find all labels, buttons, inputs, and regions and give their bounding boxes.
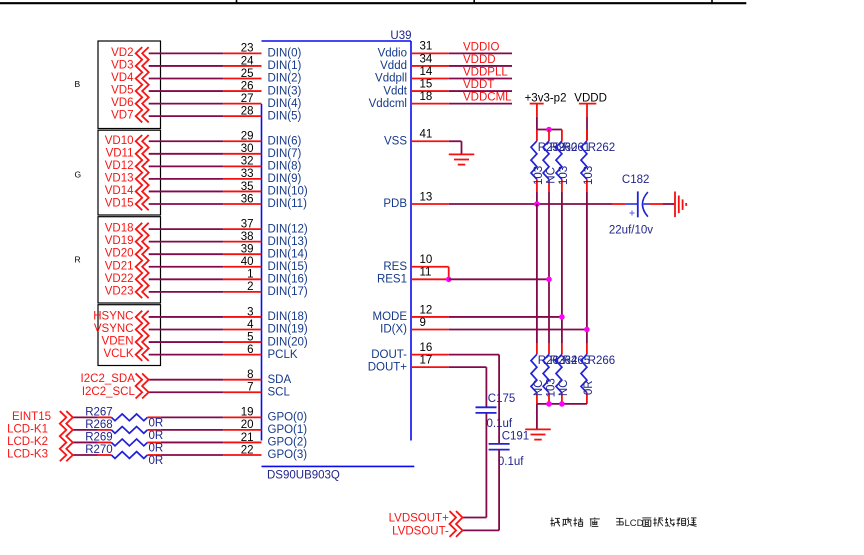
svg-text:10: 10 [420, 254, 433, 266]
svg-text:0R: 0R [149, 442, 164, 454]
wire VSS [449, 140, 462, 142]
group box B (VD2-VD7) [98, 41, 161, 129]
svg-text:R270: R270 [85, 444, 113, 456]
pin 5 DIN(20) [223, 331, 308, 348]
wire VDDIO [449, 52, 512, 54]
svg-text:11: 11 [420, 267, 432, 279]
wire DOUT+ [449, 366, 487, 368]
wire HSYNC [149, 316, 224, 318]
svg-text:0R: 0R [149, 455, 164, 467]
svg-text:VD3: VD3 [111, 59, 133, 71]
svg-text:DIN(7): DIN(7) [268, 148, 302, 160]
svg-text:LVDSOUT+: LVDSOUT+ [389, 513, 449, 525]
wire VCLK [149, 354, 224, 356]
svg-text:DIN(5): DIN(5) [268, 110, 302, 122]
svg-text:VD21: VD21 [105, 260, 134, 272]
svg-text:33: 33 [241, 168, 254, 180]
svg-text:G: G [75, 169, 82, 179]
ground VSS [449, 154, 475, 164]
wire resistor bottom bus [537, 403, 587, 405]
svg-text:I2C2_SDA: I2C2_SDA [81, 373, 136, 385]
svg-text:103: 103 [533, 166, 545, 185]
svg-text:14: 14 [420, 66, 433, 78]
wire R262 down [586, 192, 588, 343]
svg-text:LCD-K1: LCD-K1 [7, 423, 48, 435]
svg-text:VDDPLL: VDDPLL [463, 67, 508, 79]
svg-text:R262: R262 [588, 142, 616, 154]
svg-text:16: 16 [420, 342, 433, 354]
svg-text:PDB: PDB [383, 198, 407, 210]
svg-text:Vddd: Vddd [380, 60, 407, 72]
svg-text:3: 3 [247, 306, 253, 318]
port arrows [136, 223, 149, 298]
wire R261 down [561, 192, 563, 343]
svg-text:PCLK: PCLK [268, 349, 298, 361]
svg-text:C191: C191 [502, 431, 530, 443]
pin 4 DIN(19) [223, 319, 308, 336]
svg-text:VD6: VD6 [111, 97, 133, 109]
svg-text:VDDT: VDDT [463, 79, 494, 91]
wire VD7 [149, 115, 224, 117]
wire VD14 [149, 190, 224, 192]
svg-text:VD10: VD10 [105, 135, 134, 147]
svg-text:R267: R267 [85, 406, 113, 418]
svg-text:VDEN: VDEN [102, 336, 134, 348]
IC U39 outline [262, 30, 412, 440]
node junction R262/ID(X) [584, 327, 590, 333]
port arrows LVDSOUT [450, 511, 463, 537]
node junction RES/RES1 [446, 277, 452, 283]
svg-text:7: 7 [247, 382, 253, 394]
pin 25 DIN(2) [223, 68, 301, 85]
svg-text:VD5: VD5 [111, 85, 133, 97]
pin 14 Vddpll [375, 66, 449, 85]
pin 3 DIN(18) [223, 306, 308, 323]
wire DOUT- [449, 354, 499, 356]
svg-text:SCL: SCL [268, 386, 291, 398]
resistor R270 0R [85, 444, 163, 467]
wire VD18 [149, 228, 224, 230]
pin 19 GPO(0) [223, 407, 307, 424]
svg-text:VCLK: VCLK [103, 348, 133, 360]
resistor R269 0R [85, 431, 163, 454]
wire bus to ground [536, 404, 538, 430]
svg-text:RES: RES [383, 261, 407, 273]
port arrows [136, 311, 149, 361]
wire LCD-K3 to R270 [73, 454, 98, 456]
svg-text:GPO(1): GPO(1) [268, 424, 308, 436]
svg-text:DOUT-: DOUT- [371, 349, 407, 361]
svg-text:ID(X): ID(X) [380, 324, 407, 336]
pin 6 PCLK [223, 344, 298, 361]
pin 36 DIN(11) [223, 193, 307, 210]
wire VD19 [149, 241, 224, 243]
wire VD22 [149, 278, 224, 280]
svg-text:Vddcml: Vddcml [369, 98, 407, 110]
svg-text:2: 2 [247, 281, 253, 293]
svg-text:LCD: LCD [625, 518, 644, 529]
svg-text:MODE: MODE [373, 311, 408, 323]
capacitor C175 0.1uf [476, 393, 516, 430]
svg-text:12: 12 [420, 304, 433, 316]
svg-text:28: 28 [241, 105, 254, 117]
svg-text:34: 34 [420, 53, 433, 65]
svg-text:40: 40 [241, 256, 254, 268]
wire R268 to pin [161, 429, 224, 431]
resistor R264 103 [543, 343, 578, 404]
svg-text:38: 38 [241, 231, 254, 243]
svg-text:103: 103 [545, 378, 557, 397]
svg-text:VD18: VD18 [105, 223, 134, 235]
pin 22 GPO(3) [223, 444, 307, 461]
pin 7 SCL [223, 382, 290, 399]
wire VD10 [149, 140, 224, 142]
pin 12 MODE [373, 304, 449, 323]
port arrows [136, 135, 149, 210]
wire VD21 [149, 266, 224, 268]
wire VDDPLL [449, 78, 512, 80]
node junction bus/R264 [546, 401, 552, 407]
svg-text:DIN(8): DIN(8) [268, 161, 302, 173]
svg-text:VSYNC: VSYNC [94, 323, 134, 335]
svg-text:+3v3-p2: +3v3-p2 [525, 92, 567, 104]
svg-text:22: 22 [241, 444, 254, 456]
wire RES1 [449, 278, 549, 280]
svg-text:R266: R266 [588, 355, 616, 367]
svg-text:VDDCML: VDDCML [463, 92, 512, 104]
svg-text:DOUT+: DOUT+ [368, 361, 408, 373]
port arrows I2C2 [136, 373, 149, 398]
node junction R260/RES1 [546, 277, 552, 283]
resistor R260 NC [543, 130, 577, 192]
pin 18 Vddcml [369, 91, 449, 110]
pin 31 Vddio [378, 41, 449, 60]
group box G (VD10-VD15) [98, 130, 161, 215]
svg-text:U39: U39 [390, 30, 411, 42]
wire LCD-K1 to R268 [73, 429, 98, 431]
svg-text:103: 103 [558, 166, 570, 185]
pin 34 Vddd [380, 53, 449, 72]
resistor R262 103 [581, 130, 615, 192]
svg-text:9: 9 [420, 317, 426, 329]
wire RES to RES1 [448, 267, 450, 280]
pin 17 DOUT+ [368, 354, 449, 373]
svg-text:DIN(0): DIN(0) [268, 48, 302, 60]
wire VDEN [149, 341, 224, 343]
resistor R266 0R [581, 343, 615, 404]
svg-text:GPO(0): GPO(0) [268, 412, 308, 424]
wire R260 down [548, 192, 550, 343]
wire R259 to PDB [536, 192, 538, 204]
power +3v3-p2 [525, 92, 567, 116]
wire VD5 [149, 90, 224, 92]
svg-text:DIN(2): DIN(2) [268, 73, 302, 85]
svg-text:35: 35 [241, 181, 254, 193]
pin 38 DIN(13) [223, 231, 308, 248]
wire VDDD [449, 65, 512, 67]
svg-text:Vddpll: Vddpll [375, 73, 407, 85]
svg-text:39: 39 [241, 244, 254, 256]
svg-text:37: 37 [241, 218, 254, 230]
svg-text:DIN(15): DIN(15) [268, 261, 308, 273]
svg-text:VD11: VD11 [106, 147, 134, 159]
svg-text:VDDIO: VDDIO [463, 42, 499, 54]
svg-text:DIN(1): DIN(1) [268, 60, 302, 72]
svg-text:B: B [75, 79, 81, 89]
svg-text:22uf/10v: 22uf/10v [609, 224, 653, 236]
svg-text:NC: NC [545, 167, 557, 184]
svg-text:VD12: VD12 [105, 160, 134, 172]
wire R267 to pin [161, 416, 224, 418]
svg-text:DIN(3): DIN(3) [268, 85, 302, 97]
svg-text:EINT15: EINT15 [12, 411, 51, 423]
svg-text:DIN(4): DIN(4) [268, 98, 302, 110]
svg-text:20: 20 [241, 419, 254, 431]
pin 21 GPO(2) [223, 432, 307, 449]
svg-text:VSS: VSS [384, 135, 407, 147]
pin 27 DIN(4) [223, 93, 301, 110]
pin 35 DIN(10) [223, 181, 308, 198]
svg-text:SDA: SDA [268, 374, 292, 386]
svg-text:29: 29 [241, 131, 254, 143]
svg-text:DIN(13): DIN(13) [268, 236, 308, 248]
wire R269 to pin [161, 441, 224, 443]
port arrows EINT/LCD-K [60, 411, 73, 461]
pin 8 SDA [223, 369, 291, 386]
svg-text:DIN(16): DIN(16) [268, 274, 308, 286]
node junction bus/R265 [559, 401, 565, 407]
wire VD20 [149, 253, 224, 255]
wire I2C2_SDA [149, 379, 224, 381]
svg-text:LCD-K3: LCD-K3 [7, 449, 48, 461]
svg-text:Vddio: Vddio [378, 48, 407, 60]
pin 23 DIN(0) [223, 43, 301, 60]
wire VD12 [149, 165, 224, 167]
resistor R259 103 [531, 130, 565, 192]
ground (rotated) at C182 [675, 192, 686, 218]
svg-text:VD20: VD20 [105, 248, 134, 260]
svg-text:VD14: VD14 [105, 185, 134, 197]
svg-text:DIN(6): DIN(6) [268, 135, 302, 147]
svg-text:C182: C182 [622, 174, 650, 186]
svg-text:21: 21 [241, 432, 254, 444]
svg-text:LVDSOUT-: LVDSOUT- [392, 525, 449, 537]
svg-text:GPO(2): GPO(2) [268, 437, 308, 449]
svg-text:0R: 0R [583, 380, 595, 395]
wire VDDT [449, 90, 512, 92]
IC U39 part number DS90UB903Q [262, 466, 415, 481]
svg-text:VDDD: VDDD [463, 54, 496, 66]
wire VD4 [149, 78, 224, 80]
wire VDDD stem [586, 117, 588, 140]
svg-text:VD22: VD22 [105, 273, 134, 285]
pin 37 DIN(12) [223, 218, 308, 235]
svg-text:DIN(20): DIN(20) [268, 336, 308, 348]
pin 26 DIN(3) [223, 80, 301, 97]
resistor R268 0R [85, 419, 163, 442]
pin 10 RES [383, 254, 448, 273]
wire VD23 [149, 291, 224, 293]
svg-text:32: 32 [241, 156, 254, 168]
wire PDB [449, 203, 612, 205]
svg-text:VD4: VD4 [111, 72, 134, 84]
svg-text:DS90UB903Q: DS90UB903Q [267, 469, 340, 481]
wire VD6 [149, 103, 224, 105]
pin 1 DIN(16) [223, 269, 308, 286]
capacitor C182 22uf/10v [609, 174, 653, 236]
svg-text:VD19: VD19 [105, 235, 134, 247]
svg-text:VD15: VD15 [105, 198, 134, 210]
svg-text:VD2: VD2 [111, 47, 133, 59]
power VDDD [574, 92, 607, 117]
svg-text:0.1uf: 0.1uf [487, 418, 513, 430]
wire VSYNC [149, 329, 224, 331]
svg-text:103: 103 [583, 166, 595, 185]
resistor R263 NC [531, 343, 565, 404]
wire C191 to LVDSOUT- [498, 450, 500, 531]
svg-text:13: 13 [420, 191, 433, 203]
svg-text:0.1uf: 0.1uf [498, 456, 524, 468]
capacitor C191 0.1uf [489, 431, 530, 468]
svg-text:R: R [75, 255, 81, 265]
svg-text:VD7: VD7 [111, 110, 133, 122]
svg-text:18: 18 [420, 91, 433, 103]
wire MODE [449, 316, 562, 318]
wire I2C2_SCL [149, 391, 224, 393]
svg-text:R269: R269 [85, 431, 113, 443]
svg-text:DIN(18): DIN(18) [268, 311, 308, 323]
node junction bridge/R260 [546, 127, 552, 133]
wire LCD-K2 to R269 [73, 441, 98, 443]
svg-text:VD23: VD23 [105, 285, 134, 297]
svg-text:HSYNC: HSYNC [93, 310, 133, 322]
wire VDDCML [449, 103, 512, 105]
pin 28 DIN(5) [223, 105, 301, 122]
svg-text:6: 6 [247, 344, 253, 356]
group box R (VD18-VD23) [98, 217, 161, 303]
wire VD13 [149, 178, 224, 180]
svg-text:26: 26 [241, 80, 254, 92]
ground bottom bank [525, 429, 551, 439]
wire EINT15 to R267 [73, 416, 98, 418]
node junction R261/MODE [559, 314, 565, 320]
port arrows [136, 47, 149, 122]
svg-text:DIN(11): DIN(11) [268, 198, 308, 210]
pin 16 DOUT- [371, 342, 448, 361]
pin 33 DIN(9) [223, 168, 301, 185]
pin 39 DIN(14) [223, 244, 308, 261]
wire VD3 [149, 65, 224, 67]
svg-text:0R: 0R [149, 430, 164, 442]
pin 24 DIN(1) [223, 55, 301, 72]
svg-text:C175: C175 [488, 393, 516, 405]
pin 20 GPO(1) [223, 419, 307, 436]
wire VD11 [149, 153, 224, 155]
svg-text:DIN(19): DIN(19) [268, 324, 308, 336]
svg-text:DIN(10): DIN(10) [268, 186, 308, 198]
svg-text:25: 25 [241, 68, 254, 80]
svg-text:GPO(3): GPO(3) [268, 449, 308, 461]
node junction R259/PDB [534, 201, 540, 207]
svg-text:41: 41 [420, 129, 433, 141]
svg-text:VDDD: VDDD [574, 92, 607, 104]
svg-text:DIN(12): DIN(12) [268, 223, 308, 235]
resistor R261 103 [556, 130, 590, 192]
svg-text:DIN(9): DIN(9) [268, 173, 302, 185]
wire R270 to pin [161, 454, 224, 456]
resistor R265 NC [556, 343, 590, 404]
svg-text:RES1: RES1 [377, 274, 407, 286]
note text (Chinese annotation) [550, 517, 696, 527]
svg-text:LCD-K2: LCD-K2 [7, 436, 48, 448]
wire +3v3-p2 stem [536, 117, 538, 130]
pin 29 DIN(6) [223, 131, 301, 148]
svg-text:31: 31 [420, 41, 433, 53]
pin 32 DIN(8) [223, 156, 301, 173]
svg-text:24: 24 [241, 55, 254, 67]
svg-text:I2C2_SCL: I2C2_SCL [82, 386, 136, 398]
svg-text:36: 36 [241, 193, 254, 205]
svg-text:4: 4 [247, 319, 254, 331]
svg-text:VD13: VD13 [105, 172, 134, 184]
svg-text:NC: NC [558, 379, 570, 396]
svg-text:23: 23 [241, 43, 254, 55]
resistor R267 0R [85, 406, 163, 429]
pin 40 DIN(15) [223, 256, 308, 273]
wire +3v3 bridge [537, 129, 562, 131]
wire C182 to ground [649, 203, 663, 205]
pin 13 PDB [383, 191, 448, 210]
pin 9 ID(X) [380, 317, 449, 336]
pin 11 RES1 [377, 267, 449, 286]
svg-text:R268: R268 [85, 419, 113, 431]
pin 30 DIN(7) [223, 143, 301, 160]
wire R259 down to R263 [536, 204, 538, 343]
svg-text:30: 30 [241, 143, 254, 155]
svg-text:DIN(14): DIN(14) [268, 248, 308, 260]
wire C175 to LVDSOUT+ [485, 413, 487, 518]
pin 15 Vddt [383, 78, 448, 97]
svg-text:0R: 0R [149, 417, 164, 429]
wire ID(X) [449, 329, 587, 331]
group box sync signals [98, 305, 161, 366]
svg-text:1: 1 [247, 269, 253, 281]
svg-text:19: 19 [241, 407, 254, 419]
svg-text:5: 5 [247, 331, 253, 343]
svg-text:17: 17 [420, 354, 433, 366]
wire VD2 [149, 52, 224, 54]
svg-text:15: 15 [420, 78, 433, 90]
svg-text:DIN(17): DIN(17) [268, 286, 308, 298]
pin 41 VSS [384, 129, 449, 148]
wire VD15 [149, 203, 224, 205]
svg-text:8: 8 [247, 369, 253, 381]
svg-text:27: 27 [241, 93, 254, 105]
svg-text:Vddt: Vddt [383, 85, 407, 97]
pin 2 DIN(17) [223, 281, 308, 298]
